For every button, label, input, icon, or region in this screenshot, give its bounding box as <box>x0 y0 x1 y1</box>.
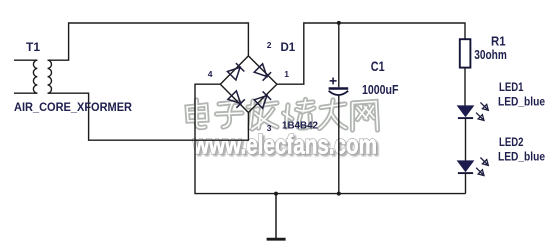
svg-text:1: 1 <box>284 69 289 79</box>
svg-text:LED_blue: LED_blue <box>498 150 545 164</box>
svg-text:2: 2 <box>267 40 272 50</box>
svg-text:LED1: LED1 <box>499 80 524 94</box>
diode D1c (bottom-left, points to pin 3) <box>228 91 245 108</box>
wire: bridge pin 4 to bottom rail <box>195 84 466 193</box>
C1 bottom curved plate <box>329 91 349 95</box>
diode D1a (top-left, points to pin 2) <box>227 63 244 80</box>
capacitor C1 <box>329 23 349 194</box>
wire: secondary bottom to bridge pin 3 <box>48 93 249 140</box>
C1 top plate <box>329 87 349 90</box>
wire: LED2 to bottom rail <box>465 173 467 194</box>
wire: LED1 to LED2 <box>465 118 467 161</box>
secondary winding arcs <box>48 60 52 93</box>
svg-text:www.elecfans.com: www.elecfans.com <box>192 130 377 160</box>
svg-text:AIR_CORE_XFORMER: AIR_CORE_XFORMER <box>14 102 133 114</box>
svg-text:LED2: LED2 <box>499 135 524 149</box>
svg-text:C1: C1 <box>371 58 385 74</box>
junction dot on top rail at C1 tap <box>337 21 341 25</box>
wire: top rail down to C1 <box>338 23 340 87</box>
svg-text:1000uF: 1000uF <box>362 82 399 97</box>
wire: C1 down to bottom rail <box>338 95 340 194</box>
wire: secondary top to top rail to bridge pin 2 <box>48 23 249 60</box>
watermark line 2: www.elecfans.com <box>192 130 379 162</box>
svg-text:3: 3 <box>267 123 272 133</box>
svg-text:R1: R1 <box>491 34 506 49</box>
svg-text:4: 4 <box>208 69 213 79</box>
svg-text:T1: T1 <box>26 40 40 54</box>
ground <box>267 192 286 240</box>
svg-text:LED_blue: LED_blue <box>498 95 545 109</box>
diode D1b (top-right, points to pin 1) <box>254 64 271 81</box>
wire: R1 to LED1 <box>464 68 466 106</box>
wire: bridge pin 1 up to top rail and down to R1 <box>277 23 465 84</box>
svg-text:1B4B42: 1B4B42 <box>282 120 318 132</box>
junction dot on bottom rail below C1 <box>337 192 341 196</box>
bridge rectifier D1 diamond <box>220 56 277 113</box>
wire: primary bottom stub <box>14 92 37 94</box>
LED1 <box>458 102 489 120</box>
svg-text:30ohm: 30ohm <box>474 48 507 62</box>
transformer T1 <box>14 60 51 93</box>
resistor R1 <box>460 39 471 67</box>
LED2 <box>458 158 489 176</box>
plus sign <box>330 78 337 85</box>
primary winding arcs <box>33 60 37 93</box>
wire: primary top stub <box>14 59 37 61</box>
watermark line 1: 电子发烧友网 (stylized gray calligraphy) <box>187 100 378 131</box>
svg-text:D1: D1 <box>281 42 296 54</box>
diode D1d (bottom-right, points to pin 1) <box>254 91 271 108</box>
